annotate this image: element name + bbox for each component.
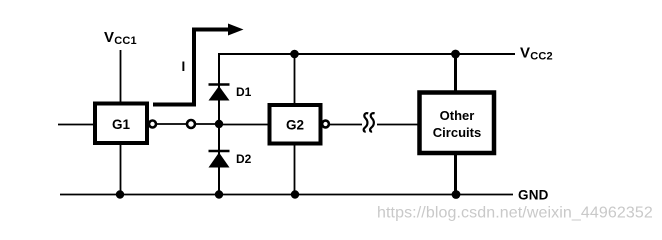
wire open node to junction [196, 123, 217, 125]
wire G2 output to break [329, 124, 362, 126]
gate G2 [270, 105, 321, 144]
junction GND below Other Circuits [452, 190, 461, 199]
diode D2 [209, 151, 230, 168]
wire GND rail [60, 194, 513, 196]
wire G2 top lead [294, 54, 296, 105]
junction node A [215, 120, 223, 128]
svg-text:D2: D2 [236, 152, 252, 166]
gate G1 [95, 104, 147, 144]
wire Other Circuits bottom lead [454, 152, 457, 195]
junction GND below D2 [215, 190, 223, 198]
wire junction to G2 [219, 124, 268, 126]
svg-text:https://blog.csdn.net/weixin_4: https://blog.csdn.net/weixin_44962352 [377, 205, 653, 222]
wire G2 bottom lead [294, 144, 296, 195]
junction on rail above G2 [290, 50, 299, 59]
junction GND below G1 [116, 190, 124, 198]
bubble G2 output [322, 121, 329, 128]
wire Other Circuits top lead [454, 54, 457, 93]
svg-text:I: I [182, 59, 186, 74]
wire diode branch vertical [218, 54, 220, 195]
wire input to G1 [58, 124, 93, 126]
box U1 Other Circuits [420, 93, 495, 154]
wire VCC2 top rail [218, 53, 515, 55]
svg-text:D1: D1 [236, 85, 252, 99]
break squiggle [364, 113, 375, 131]
wire G1 bottom lead [120, 144, 122, 195]
svg-text:G1: G1 [112, 117, 131, 132]
svg-text:VCC2: VCC2 [520, 45, 553, 63]
svg-text:G2: G2 [286, 118, 304, 133]
node open circle [187, 120, 195, 128]
wire VCC1 lead [120, 50, 122, 102]
current arrow I [153, 24, 244, 105]
svg-text:VCC1: VCC1 [104, 29, 137, 47]
bubble G1 output [149, 121, 156, 128]
junction GND below G2 [291, 190, 299, 198]
wire break to Other Circuits [377, 124, 419, 126]
wire G1 output to open node [156, 123, 186, 125]
svg-text:GND: GND [518, 188, 549, 203]
diode D1 [209, 85, 230, 101]
junction on rail above Other Circuits [451, 50, 460, 59]
svg-text:Other: Other [440, 108, 475, 123]
svg-text:Circuits: Circuits [433, 125, 481, 140]
